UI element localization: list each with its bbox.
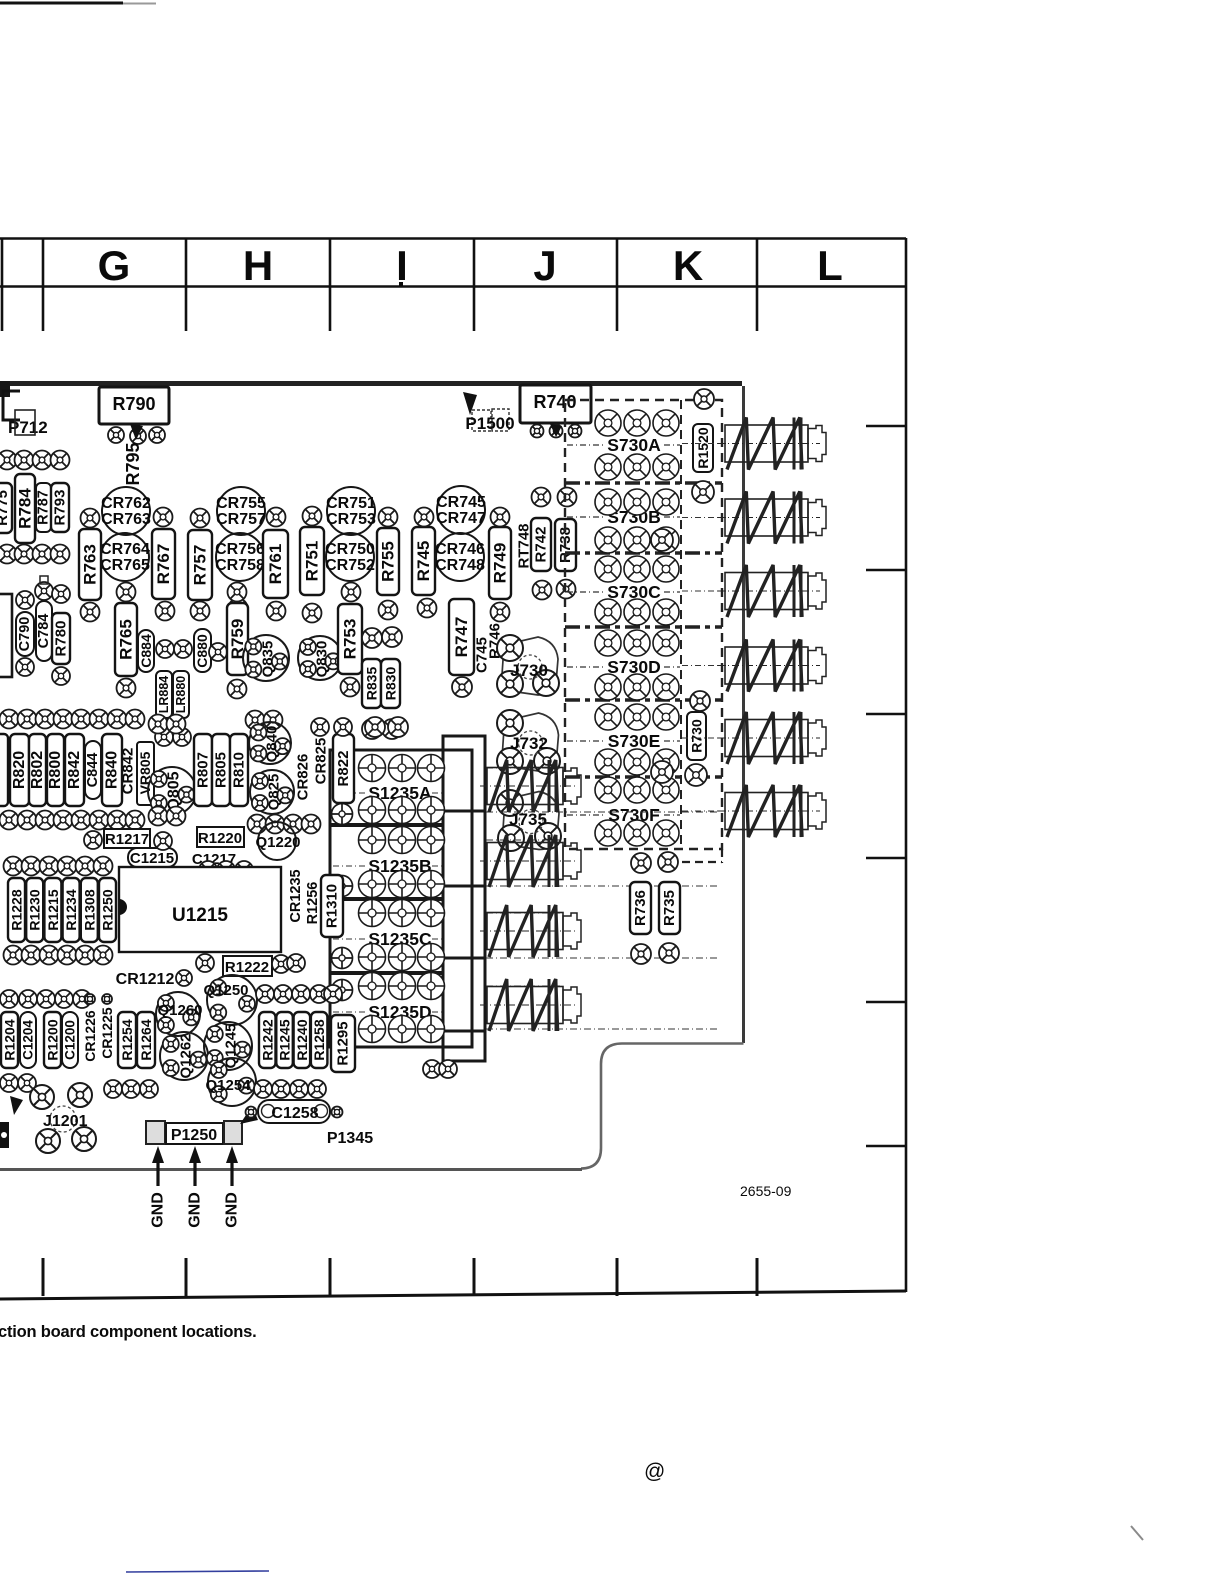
svg-text:R1258: R1258 (311, 1019, 327, 1060)
svg-text:Q805: Q805 (166, 771, 183, 810)
pads row y840 (84, 831, 172, 850)
svg-text:CR763: CR763 (101, 511, 151, 528)
svg-text:CR1225: CR1225 (99, 1007, 115, 1059)
svg-text:R740: R740 (533, 392, 576, 412)
pad row top-left (0, 451, 70, 470)
pad row y866 (4, 857, 113, 876)
diodes CR750/CR752 (325, 533, 375, 581)
coil L730E (718, 712, 826, 764)
resistor R761 (263, 530, 288, 598)
pads R757 (191, 509, 210, 621)
transistor Q835 (243, 635, 289, 681)
svg-text:R780: R780 (53, 621, 70, 657)
svg-text:Q1262: Q1262 (178, 1033, 195, 1078)
svg-text:R1220: R1220 (198, 830, 242, 847)
svg-text:R735: R735 (661, 890, 678, 926)
S730 section pads (595, 777, 679, 846)
pads below S1235 (423, 1060, 457, 1078)
S730 section pads (595, 489, 679, 553)
switch section S730E label (567, 731, 680, 751)
S1235 section pads (359, 827, 445, 898)
svg-text:G: G (98, 242, 131, 289)
misc pads S730 right column (651, 529, 673, 783)
resistor R1254 (118, 1012, 136, 1068)
switch S730 outline (565, 400, 722, 849)
switch section S730D label (567, 657, 680, 677)
svg-text:CR826: CR826 (295, 754, 312, 801)
svg-text:S730E: S730E (608, 731, 661, 751)
svg-text:R761: R761 (266, 544, 285, 585)
svg-text:CR1226: CR1226 (82, 1010, 98, 1062)
svg-text:CR765: CR765 (100, 557, 150, 574)
S1235 separators (330, 825, 443, 973)
svg-text:C884: C884 (138, 634, 154, 668)
S1235 section pads (359, 755, 445, 824)
S730 section pads (595, 630, 679, 700)
svg-text:R790: R790 (112, 394, 155, 414)
svg-text:R820: R820 (11, 751, 28, 789)
svg-text:CR1235: CR1235 (288, 869, 304, 922)
svg-text:CR756: CR756 (215, 541, 265, 558)
svg-text:@: @ (644, 1460, 665, 1483)
resistor R757 (188, 530, 212, 600)
svg-text:CR745: CR745 (436, 494, 486, 511)
resistor R1200 (44, 1012, 61, 1068)
resistor R730 (687, 712, 706, 760)
diodes CR764/CR765 (100, 533, 150, 581)
grid header row (0, 238, 906, 331)
svg-text:R753: R753 (341, 619, 360, 660)
resistor R787 (36, 483, 52, 532)
pad R747 (452, 677, 472, 697)
svg-text:R755: R755 (379, 541, 398, 582)
svg-text:C1200: C1200 (63, 1020, 78, 1060)
switch S1235 body (330, 736, 485, 1061)
resistor R1215 (44, 878, 61, 942)
svg-text:C844: C844 (85, 753, 101, 788)
svg-text:P712: P712 (8, 418, 48, 437)
svg-text:GND: GND (224, 1192, 241, 1228)
svg-text:R1240: R1240 (294, 1019, 310, 1060)
resistor R745 (412, 527, 435, 595)
resistor R1234 (63, 878, 80, 942)
resistor R835 (362, 659, 381, 708)
resistor R1240 (294, 1012, 311, 1068)
svg-text:J1201: J1201 (43, 1113, 88, 1130)
svg-text:R1242: R1242 (259, 1019, 275, 1060)
resistor R1520 (693, 424, 713, 472)
pads R755 (379, 508, 398, 620)
resistor R820 (10, 734, 29, 806)
switch section S730F label (567, 805, 680, 825)
pads bottom-left (0, 1074, 158, 1098)
S1235 slider contacts (444, 811, 484, 1031)
pads R765 (117, 583, 136, 698)
S730 section separators (565, 483, 722, 777)
svg-text:R840: R840 (104, 751, 121, 789)
resistor R736 (630, 882, 651, 934)
svg-text:CR825: CR825 (313, 738, 330, 785)
capacitor C884 (138, 630, 154, 672)
connector P1250 (146, 1121, 242, 1144)
pads R742/R738 (532, 488, 577, 600)
resistor R755 (377, 528, 399, 595)
S730 section pads (595, 704, 679, 775)
transistor Q1250 (203, 975, 257, 1025)
svg-text:R775: R775 (0, 490, 11, 526)
resistor R747 (449, 599, 474, 675)
svg-text:CR755: CR755 (216, 495, 266, 512)
resistor R740 (520, 385, 591, 423)
resistor R840 (102, 734, 122, 806)
capacitor C1215 (128, 848, 177, 867)
resistor R753 (338, 604, 362, 674)
capacitor C790 (16, 591, 34, 676)
pads R751 (303, 507, 322, 623)
pads R749 (491, 508, 510, 622)
pads above R1242 col (256, 985, 342, 1003)
svg-text:C1215: C1215 (130, 850, 174, 867)
pads R745 (415, 508, 437, 618)
resistor R805 (212, 734, 230, 806)
IC U1215 (119, 867, 281, 952)
pads R761 (267, 508, 286, 621)
svg-text:Q1254: Q1254 (205, 1077, 251, 1094)
S730 tail dashes (682, 849, 722, 863)
svg-text:CR747: CR747 (436, 510, 486, 527)
svg-text:R730: R730 (689, 719, 705, 753)
S1235 left pads (332, 804, 355, 1042)
resistor R830 (381, 659, 400, 708)
resistor R738 (555, 519, 576, 571)
cut resistor at left edge (0, 734, 8, 806)
pad row y719 (0, 710, 352, 737)
svg-text:CR752: CR752 (325, 557, 375, 574)
svg-text:U1215: U1215 (172, 905, 228, 926)
svg-text:J: J (533, 242, 556, 289)
capacitor C844 (85, 741, 101, 799)
svg-text:Q1250: Q1250 (203, 982, 248, 999)
svg-text:GND: GND (187, 1192, 204, 1228)
pads row y868 (199, 861, 253, 879)
varistor VR805 (137, 742, 154, 805)
svg-text:R757: R757 (191, 545, 210, 586)
svg-text:R745: R745 (414, 541, 433, 582)
svg-text:R1308: R1308 (81, 889, 97, 930)
switch section S730C label (567, 582, 680, 602)
transistor Q825 (250, 770, 294, 814)
pad row y820 (0, 807, 321, 834)
svg-text:VR805: VR805 (137, 751, 153, 794)
resistor R1310 (321, 875, 343, 937)
right page border (866, 238, 906, 1292)
svg-text:R810: R810 (231, 752, 248, 788)
svg-text:R742: R742 (533, 527, 550, 563)
svg-text:Q1245: Q1245 (223, 1023, 240, 1068)
diodes CR745/CR747 (436, 486, 486, 534)
svg-text:Q1260: Q1260 (157, 1002, 202, 1019)
diodes CR756/CR758 (215, 533, 265, 581)
pads near C884 (156, 640, 192, 658)
svg-text:CR753: CR753 (326, 511, 376, 528)
coil L730D (718, 640, 826, 692)
pads R767 (154, 508, 175, 621)
svg-text:R751: R751 (303, 541, 322, 582)
svg-text:P1500: P1500 (465, 414, 514, 433)
coil L1235C (480, 905, 581, 957)
svg-text:ction board component location: ction board component locations. (0, 1323, 257, 1341)
svg-text:CR757: CR757 (216, 511, 266, 528)
svg-text:J730: J730 (510, 661, 548, 680)
resistor R767 (152, 529, 175, 599)
svg-text:R830: R830 (383, 667, 399, 701)
svg-text:R767: R767 (154, 544, 173, 585)
svg-text:CR842: CR842 (120, 748, 137, 795)
connector J1201 (30, 1083, 96, 1153)
capacitor C1200 (62, 1012, 78, 1068)
pads R753 (341, 583, 361, 697)
svg-text:P1250: P1250 (171, 1127, 217, 1144)
cut component at left edge (0, 594, 12, 677)
coil L730B (718, 492, 826, 544)
resistor R735 (659, 882, 680, 934)
svg-text:P1345: P1345 (327, 1130, 373, 1147)
S730 section pads (595, 556, 679, 625)
svg-text:CR764: CR764 (100, 541, 150, 558)
resistor R1258 (311, 1012, 328, 1068)
resistor R765 (115, 603, 137, 676)
pad row y955 (4, 946, 113, 965)
switch section S1235D label (333, 1002, 442, 1022)
transistor Q805 (148, 767, 196, 815)
coil L730F (718, 785, 826, 837)
pads R759 (228, 583, 247, 699)
ground GND arrow (187, 1146, 204, 1228)
resistor R1228 (8, 878, 25, 942)
capacitor C784 (35, 576, 53, 661)
transistor Q840 (249, 722, 291, 764)
svg-text:R1234: R1234 (63, 889, 79, 930)
resistor R1250 (99, 878, 116, 942)
svg-text:GND: GND (150, 1192, 167, 1228)
diodes CR746/CR748 (435, 533, 485, 581)
svg-text:R1250: R1250 (100, 889, 116, 930)
switch section S1235B label (333, 856, 442, 876)
svg-text:J735: J735 (509, 810, 547, 829)
connector J735 (497, 790, 561, 851)
pads R1520 (692, 389, 714, 503)
transistor Q830 (298, 636, 342, 680)
svg-text:R1230: R1230 (27, 889, 43, 930)
svg-text:R793: R793 (52, 490, 69, 526)
pads under R790 (108, 424, 165, 444)
svg-text:CR1212: CR1212 (116, 971, 175, 988)
svg-text:R749: R749 (491, 543, 510, 584)
svg-text:R1217: R1217 (105, 831, 149, 848)
svg-text:R800: R800 (47, 751, 64, 789)
svg-text:R807: R807 (195, 752, 212, 788)
ground GND arrow (150, 1146, 167, 1228)
connector J732 (497, 710, 560, 774)
pads R835/R830 (362, 627, 402, 739)
S1235 section pads (359, 973, 445, 1043)
resistor R800 (47, 734, 64, 806)
connector P1500 (463, 392, 515, 433)
resistor R790 (99, 387, 169, 424)
resistor R763 (79, 529, 101, 600)
bottom page border (0, 1258, 906, 1299)
svg-text:CR751: CR751 (326, 495, 376, 512)
svg-text:R763: R763 (81, 544, 100, 585)
switch section S730B label (567, 507, 680, 527)
resistor R749 (489, 527, 511, 599)
resistor R751 (300, 527, 324, 595)
capacitor C1258 (246, 1100, 343, 1123)
svg-text:R747: R747 (452, 617, 471, 658)
left edge connector (0, 1096, 23, 1148)
svg-text:R1310: R1310 (324, 884, 341, 928)
svg-text:C790: C790 (17, 617, 33, 652)
resistor R780 (52, 613, 70, 664)
svg-text:R736: R736 (632, 890, 649, 926)
S1235 section pads (359, 900, 445, 971)
resistor R1204 (1, 1012, 18, 1068)
svg-text:Q840: Q840 (264, 726, 281, 763)
svg-text:C880: C880 (194, 634, 210, 668)
resistor LR884 (156, 671, 172, 718)
pad below CR758 (229, 599, 248, 618)
svg-text:H: H (243, 242, 273, 289)
resistor R793 (51, 483, 69, 532)
board outline right/step/bottom (0, 386, 744, 1170)
svg-text:2655-09: 2655-09 (740, 1183, 792, 1199)
pads below R1242 col (254, 1080, 326, 1098)
capacitor C880 (194, 629, 227, 672)
svg-text:K: K (673, 242, 703, 289)
svg-text:R1264: R1264 (138, 1019, 154, 1060)
coil L730A (718, 418, 826, 470)
transistor Q1260 (156, 992, 203, 1036)
svg-text:J732: J732 (510, 734, 548, 753)
resistor R742 (531, 518, 551, 571)
leader to coil C (682, 590, 726, 592)
resistor R784 (15, 474, 35, 543)
svg-text:R805: R805 (213, 752, 230, 788)
resistor R1220 (197, 827, 244, 847)
pads R780 (52, 585, 70, 685)
svg-text:R1222: R1222 (225, 959, 269, 976)
resistor R842 (65, 734, 84, 806)
S730 section pads (595, 410, 679, 480)
coil L1235D (480, 979, 581, 1031)
svg-text:R1245: R1245 (277, 1019, 293, 1060)
capacitor C1204 (20, 1012, 36, 1068)
leader to coil A (682, 443, 726, 445)
resistor R1245 (276, 1012, 293, 1068)
diodes CR755/CR757 (216, 487, 266, 535)
svg-text:CR762: CR762 (101, 495, 151, 512)
svg-text:R784: R784 (16, 488, 35, 529)
diodes CR762/CR763 (101, 487, 151, 535)
switch section S1235A label (333, 783, 442, 803)
leader to coil F (682, 810, 726, 812)
svg-text:R1200: R1200 (45, 1019, 61, 1060)
resistor R1242 (259, 1012, 276, 1068)
svg-text:S730A: S730A (607, 435, 661, 455)
pads R763 (81, 509, 100, 622)
stray slash mark (1131, 1526, 1143, 1540)
svg-text:Q825: Q825 (266, 774, 283, 811)
svg-text:R765: R765 (117, 619, 136, 660)
coil L730C (718, 565, 826, 617)
resistor R1308 (81, 878, 98, 942)
resistor R1217 (104, 829, 150, 848)
svg-text:R1228: R1228 (9, 889, 25, 930)
ground GND arrow (224, 1146, 241, 1228)
svg-text:Q1220: Q1220 (255, 834, 300, 851)
svg-text:R842: R842 (66, 751, 83, 789)
resistor R775 (0, 483, 12, 533)
svg-text:R1520: R1520 (695, 427, 711, 468)
svg-text:R1215: R1215 (45, 889, 61, 930)
resistor R1264 (137, 1012, 155, 1068)
svg-text:LR880: LR880 (174, 676, 188, 714)
pads R736/R735 (631, 852, 679, 964)
svg-text:Q835: Q835 (260, 641, 277, 678)
svg-text:R1295: R1295 (335, 1021, 352, 1065)
resistor R1222 (223, 956, 272, 976)
pads above S1235 (365, 717, 408, 737)
svg-text:C1204: C1204 (21, 1020, 36, 1060)
pads near R1222 (196, 954, 305, 973)
svg-text:R802: R802 (29, 751, 46, 789)
resistor R1295 (331, 1015, 355, 1072)
arrow flag near C1258 (240, 1106, 258, 1124)
S1235 dash-dot leaders (486, 768, 720, 1029)
svg-text:CR746: CR746 (435, 541, 485, 558)
switch section S730A label (567, 435, 680, 455)
grid letters (98, 242, 843, 289)
resistor R759 (227, 603, 248, 675)
leader to coil D (682, 665, 726, 667)
coil L1235A (480, 760, 581, 812)
pad row y999 (0, 990, 112, 1008)
svg-text:R1256: R1256 (305, 882, 321, 925)
diode CR1212 label (116, 970, 192, 988)
svg-text:CR748: CR748 (435, 557, 485, 574)
transistor Q1254 (205, 1058, 256, 1106)
svg-text:R787: R787 (36, 490, 52, 525)
resistor LR880 (173, 671, 189, 718)
svg-text:CR758: CR758 (215, 557, 265, 574)
pad row 2 top-left (0, 545, 70, 564)
resistor R1230 (26, 878, 43, 942)
svg-text:R1254: R1254 (119, 1019, 135, 1060)
top page edge line (0, 2, 156, 6)
resistor R807 (194, 734, 212, 806)
switch section S1235C label (333, 929, 442, 949)
pads LR884/LR880 (155, 728, 191, 746)
svg-text:R822: R822 (335, 751, 352, 787)
transistor Q1245 (204, 1022, 252, 1070)
connector J730 (497, 635, 559, 697)
svg-text:R1204: R1204 (2, 1019, 18, 1060)
svg-text:C1258: C1258 (271, 1105, 318, 1122)
pads under R740 (531, 414, 618, 438)
resistor R802 (29, 734, 46, 806)
svg-text:LR884: LR884 (157, 676, 171, 714)
svg-text:Q830: Q830 (314, 641, 331, 678)
